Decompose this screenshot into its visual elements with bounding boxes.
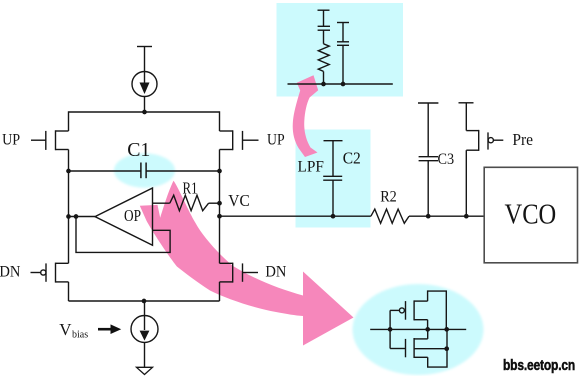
capacitor C3 xyxy=(418,103,438,216)
bottom-right detail: NMOS device xyxy=(390,329,447,367)
junction op-amp output left rail xyxy=(66,214,71,219)
op-amp OP xyxy=(95,188,153,245)
junction detail bulk tap xyxy=(444,346,449,351)
svg-text:UP: UP xyxy=(2,132,20,149)
wire xyxy=(342,23,344,42)
bottom-right detail highlight ellipse xyxy=(353,284,484,375)
Vbias arrow xyxy=(98,328,112,331)
junction bottom rail / bias source xyxy=(142,299,147,304)
VCO block xyxy=(484,167,577,262)
wire right rail lower xyxy=(219,282,221,301)
wire op-amp feedback loop xyxy=(76,217,170,253)
top detail branch 2: shunt capacitor xyxy=(337,23,349,85)
svg-text:DN: DN xyxy=(0,264,21,280)
junction detail gate node xyxy=(388,327,393,332)
wire op-amp input xyxy=(153,202,170,204)
wire right rail upper xyxy=(219,111,221,131)
svg-text:DN: DN xyxy=(265,264,286,280)
svg-text:C1: C1 xyxy=(127,139,150,161)
terminal bar (top detail branch 2) xyxy=(337,22,349,24)
svg-text:LPF: LPF xyxy=(298,158,325,176)
node VC (R1 junction) xyxy=(217,201,222,206)
wire xyxy=(323,71,325,84)
svg-text:Pre: Pre xyxy=(512,132,533,150)
junction C3 main wire xyxy=(426,214,431,219)
capacitor C1 xyxy=(141,163,146,179)
svg-text:R1: R1 xyxy=(183,180,198,198)
junction C1 wire left rail xyxy=(66,169,71,174)
wire xyxy=(323,10,325,26)
svg-text:VCO: VCO xyxy=(505,198,557,230)
wire left rail upper xyxy=(68,111,70,131)
wire R2 to VCO xyxy=(409,215,484,217)
svg-text:OP: OP xyxy=(124,208,141,226)
bottom-right detail: gate stem xyxy=(389,310,391,348)
transistor UP right xyxy=(220,130,259,150)
junction C2 main wire xyxy=(331,214,336,219)
wire xyxy=(342,45,344,84)
wire top rail xyxy=(69,111,220,113)
current source I-up xyxy=(132,47,157,113)
junction C1 wire right rail xyxy=(217,169,222,174)
wire VC to R2 xyxy=(220,215,371,217)
svg-text:V: V xyxy=(59,320,72,339)
wire op-amp output xyxy=(69,216,96,218)
top detail highlight box xyxy=(277,3,404,97)
transistor UP left xyxy=(31,130,69,150)
junction VC main wire xyxy=(217,214,222,219)
wire bottom rail xyxy=(69,300,220,302)
junction top detail branch 2 xyxy=(341,82,346,87)
transistor DN right xyxy=(220,263,259,283)
ground xyxy=(137,367,153,374)
resistor R2 xyxy=(371,209,409,223)
wire right rail middle xyxy=(219,150,221,264)
wire C1 row right xyxy=(146,170,219,172)
terminal bar (top detail branch 1) xyxy=(318,9,330,11)
bottom-right detail: mid wire xyxy=(370,328,466,330)
junction Pre main wire xyxy=(464,214,469,219)
wire left rail middle xyxy=(68,150,70,264)
junction top detail branch 1 xyxy=(321,82,326,87)
capacitor (top detail branch 1) xyxy=(318,25,330,27)
top detail: ground wire xyxy=(288,83,393,85)
highlight ellipse around C1 xyxy=(114,153,175,187)
svg-text:UP: UP xyxy=(267,132,285,149)
pink arrow from op-amp to bottom-right detail ellipse xyxy=(140,181,354,346)
current source I-bias xyxy=(131,301,158,367)
transistor Pre xyxy=(459,103,504,216)
junction op-amp feedback tap xyxy=(74,214,79,219)
wire left rail lower xyxy=(68,282,70,301)
LPF highlight box xyxy=(296,130,371,228)
transistor DN left xyxy=(31,263,69,283)
junction detail source node xyxy=(425,327,430,332)
capacitor (top detail branch 2) xyxy=(337,41,349,43)
junction top rail / current source xyxy=(142,110,147,115)
capacitor C2 xyxy=(323,141,342,217)
wire C1 row left xyxy=(69,170,141,172)
wire xyxy=(323,30,325,44)
junction detail drain rail xyxy=(444,327,449,332)
bottom-right detail: PMOS device xyxy=(390,291,446,329)
resistor (top detail branch 1) xyxy=(318,44,329,72)
svg-text:R2: R2 xyxy=(380,189,397,206)
top detail branch 1: series capacitor and resistor xyxy=(318,10,331,84)
svg-text:bbs.eetop.cn: bbs.eetop.cn xyxy=(503,357,575,374)
pink arrow from LPF to top detail box xyxy=(293,75,318,157)
svg-text:VC: VC xyxy=(228,191,249,210)
resistor R1 xyxy=(170,195,209,211)
svg-text:C2: C2 xyxy=(343,150,361,168)
wire R1 to VC rail xyxy=(209,202,220,204)
svg-text:C3: C3 xyxy=(438,151,455,168)
svg-text:bias: bias xyxy=(72,329,88,340)
